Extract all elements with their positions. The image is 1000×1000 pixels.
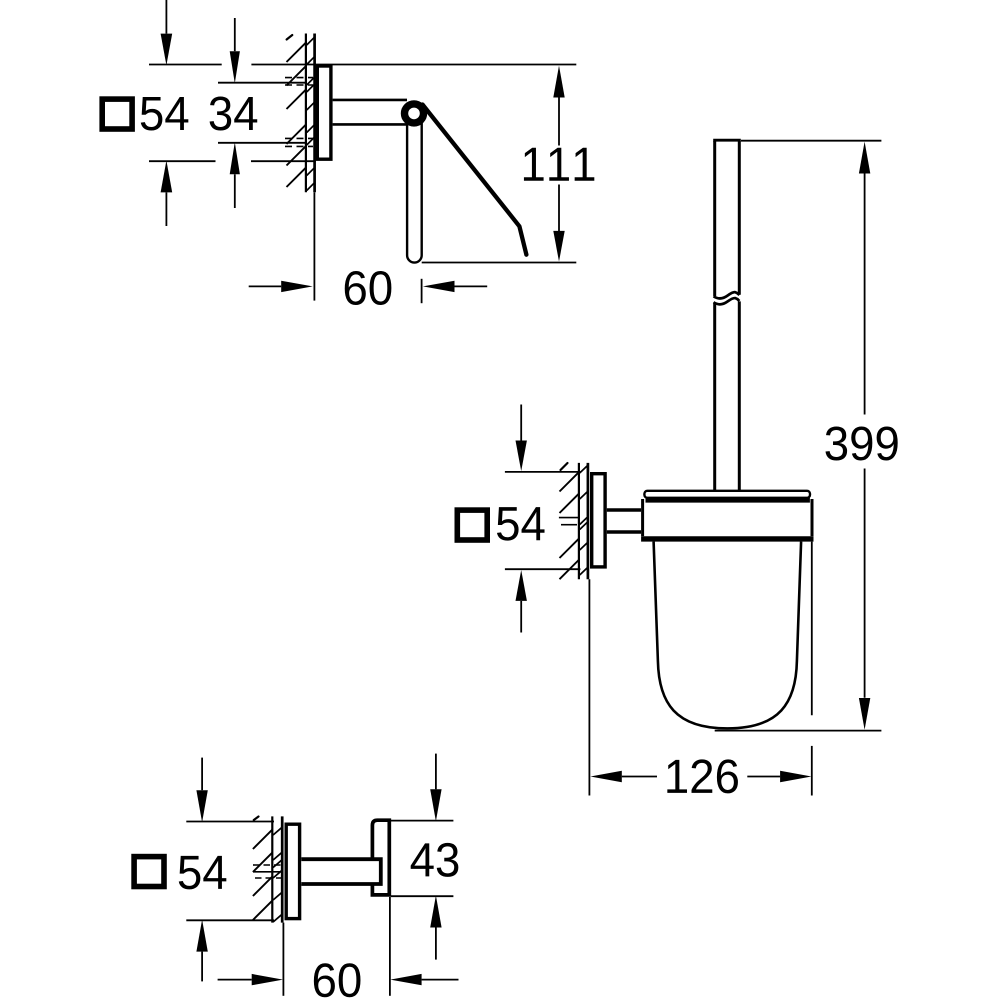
arrow 43 top (hook) <box>430 789 441 821</box>
arrow 126 left (brush set) <box>590 771 621 782</box>
dimension text 399 (brush set) <box>825 426 847 460</box>
wall section with hatching (brush set) <box>578 463 580 579</box>
hook arm (hook) <box>301 859 381 884</box>
dimension text 54 (paper holder) <box>141 97 163 130</box>
brush handle (brush set) <box>713 141 716 296</box>
arrow 43 bottom (hook) <box>430 896 441 928</box>
wall extension line for 60 (paper holder) <box>313 192 315 300</box>
holder collar (brush set) <box>641 499 644 536</box>
arrow 111 bottom (paper holder) <box>553 231 564 262</box>
dimension text 60 (hook) <box>314 963 335 997</box>
wall section with hatching (hook) <box>271 816 273 922</box>
left extension line 126 (brush set) <box>588 579 590 795</box>
dimension line 43 top (hook) <box>391 820 454 822</box>
dimension text 34 (paper holder) <box>210 96 232 130</box>
support arm (paper holder) <box>333 99 407 102</box>
dimension line 399 (brush set) <box>864 174 866 415</box>
arrow 54 top (brush set) <box>516 441 527 472</box>
arrow 54 bottom (paper holder) <box>161 161 173 193</box>
arrow 60 left (hook) <box>252 974 283 985</box>
dimension line 54 top (paper holder) <box>149 64 222 66</box>
top extension line 399 (brush set) <box>741 140 881 142</box>
glass cup (brush set) <box>654 542 802 729</box>
bottom extension line 399 (brush set) <box>715 730 882 732</box>
dimension text 126 (brush set) <box>667 760 687 793</box>
dimension line 54 bottom (brush set) <box>505 568 581 570</box>
square symbol for 54 (paper holder) <box>102 99 132 129</box>
arrow 54 bottom (brush set) <box>516 570 527 601</box>
arrow 54 bottom (hook) <box>196 920 207 952</box>
arrow 399 bottom (brush set) <box>859 698 870 730</box>
wall mount plate (paper holder) <box>317 66 331 159</box>
support arm (brush set) <box>607 508 641 512</box>
hidden fixing hole lines upper (paper holder) <box>285 77 313 79</box>
hidden fixing lines (hook) <box>253 864 281 866</box>
square symbol for 54 (brush set) <box>457 510 487 540</box>
arrow 34 top (paper holder) <box>230 51 240 83</box>
dimension line 34 bottom (paper holder) <box>218 142 307 144</box>
extension line bottom (paper holder) <box>422 262 577 264</box>
arrow 60 right (hook) <box>390 974 421 985</box>
wall section with hatching (paper holder) <box>305 34 307 193</box>
break mark waves (brush set) <box>714 292 740 298</box>
holder lid band (brush set) <box>646 498 810 503</box>
dimension line 54 top (brush set) <box>505 471 581 473</box>
dimension line 54 bottom (paper holder) <box>149 160 216 162</box>
wall mount plate (hook) <box>286 824 299 918</box>
dimension line 43 bottom (hook) <box>391 895 454 897</box>
hook extension line for 60 (hook) <box>389 897 391 996</box>
arrow 126 right (brush set) <box>780 771 811 782</box>
roll holder bar (paper holder) <box>407 117 422 263</box>
hidden fixing lines (brush set) <box>559 517 579 519</box>
arrow 34 bottom (paper holder) <box>230 142 240 174</box>
cover flap (paper holder) <box>423 105 527 255</box>
dimension line 54 bottom (hook) <box>186 919 274 921</box>
right extension line 126 (brush set) <box>811 542 813 716</box>
dimension text 54 (brush set) <box>497 507 519 540</box>
pivot roller (paper holder) <box>405 104 424 123</box>
arrow 111 top (paper holder) <box>553 66 564 98</box>
arrow 399 top (brush set) <box>859 142 870 174</box>
bar extension line for 60 (paper holder) <box>421 279 423 303</box>
arrow 54 top (paper holder) <box>161 34 173 66</box>
dimension line 54 top (hook) <box>186 821 274 823</box>
dimension line 34 top (paper holder) <box>218 82 307 84</box>
dimension text 111 (paper holder) <box>524 148 544 181</box>
arrow 54 top (hook) <box>196 790 207 822</box>
arrow 60 right (paper holder) <box>423 281 455 292</box>
wall mount plate (brush set) <box>592 474 605 567</box>
hook body plate (hook) <box>372 820 389 895</box>
dimension text 54 (hook) <box>179 856 201 889</box>
holder lid plate (brush set) <box>644 491 810 498</box>
wall extension line for 60 (hook) <box>282 923 284 996</box>
square symbol for 54 (hook) <box>134 857 164 887</box>
dimension text 43 (hook) <box>411 843 434 876</box>
dimension text 60 (paper holder) <box>345 271 366 305</box>
arrow 60 left (paper holder) <box>281 281 313 292</box>
dimension line 111 (paper holder) <box>558 98 560 146</box>
hidden fixing hole lines lower (paper holder) <box>285 137 313 139</box>
